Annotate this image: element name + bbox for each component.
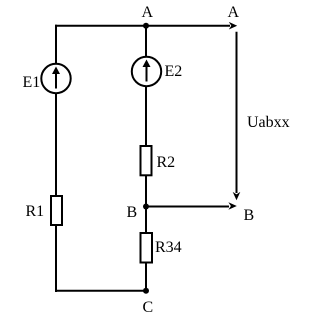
arrowhead at right end of top wire (pointing right) xyxy=(229,22,237,30)
wire: middle branch, R34 to node C xyxy=(145,263,147,291)
svg-text:R2: R2 xyxy=(157,154,176,171)
resistor R2 xyxy=(141,146,152,175)
arrowhead at bottom of Uab arrow (pointing down) xyxy=(233,192,241,200)
svg-text:Uabxx: Uabxx xyxy=(247,114,290,131)
wire: middle branch, E2 to R2 xyxy=(145,86,147,146)
svg-text:A: A xyxy=(228,4,240,21)
svg-text:B: B xyxy=(244,207,255,224)
wire: horizontal arrow from node B to right label B xyxy=(146,206,229,208)
svg-text:C: C xyxy=(143,299,154,316)
svg-text:E2: E2 xyxy=(165,63,183,80)
arrowhead at right end of B wire (pointing right) xyxy=(228,202,236,210)
svg-text:B: B xyxy=(127,204,138,221)
svg-text:R1: R1 xyxy=(26,203,45,220)
wire: top horizontal from left branch through node A toward right A xyxy=(55,25,230,27)
source E2 (circle with up arrow) xyxy=(132,57,161,86)
wire: left branch, bottom vertical segment (R1 to bottom) xyxy=(55,226,57,292)
node C junction dot xyxy=(143,288,149,294)
svg-text:E1: E1 xyxy=(23,74,41,91)
wire: left branch, middle vertical segment (E1 to R1) xyxy=(55,93,57,196)
wire: middle branch, R2 to node B and on to R34 xyxy=(145,176,147,233)
source E1 (circle with up arrow) xyxy=(41,64,70,93)
voltage arrow Uab from A down to B (right side) xyxy=(236,32,238,193)
node A junction dot xyxy=(143,23,149,29)
svg-text:R34: R34 xyxy=(155,239,182,256)
resistor R34 xyxy=(141,233,153,263)
wire: bottom horizontal to node C xyxy=(55,290,146,292)
wire: middle branch, node A to E2 xyxy=(145,26,147,57)
svg-text:A: A xyxy=(142,4,154,21)
resistor R1 xyxy=(51,196,62,225)
wire: left branch, top vertical segment xyxy=(55,25,57,64)
node B junction dot xyxy=(143,204,149,210)
